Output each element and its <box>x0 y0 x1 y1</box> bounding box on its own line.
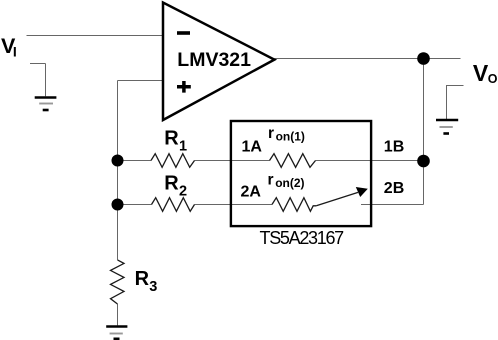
svg-text:2A: 2A <box>241 184 262 201</box>
svg-text:R: R <box>135 268 150 290</box>
svg-text:on(1): on(1) <box>276 130 305 144</box>
svg-text:V: V <box>473 60 489 86</box>
svg-text:O: O <box>488 72 498 86</box>
svg-text:2B: 2B <box>384 180 404 197</box>
svg-text:3: 3 <box>149 279 157 295</box>
svg-text:on(2): on(2) <box>275 176 304 190</box>
svg-text:1A: 1A <box>242 139 263 156</box>
svg-text:R: R <box>164 128 179 150</box>
svg-text:1: 1 <box>179 139 187 155</box>
svg-text:r: r <box>268 171 274 188</box>
svg-text:I: I <box>13 44 17 60</box>
svg-text:r: r <box>268 125 274 142</box>
svg-text:LMV321: LMV321 <box>177 49 251 71</box>
svg-text:2: 2 <box>179 184 187 200</box>
svg-text:R: R <box>164 173 179 195</box>
svg-text:TS5A23167: TS5A23167 <box>260 228 345 248</box>
svg-text:1B: 1B <box>384 139 404 156</box>
